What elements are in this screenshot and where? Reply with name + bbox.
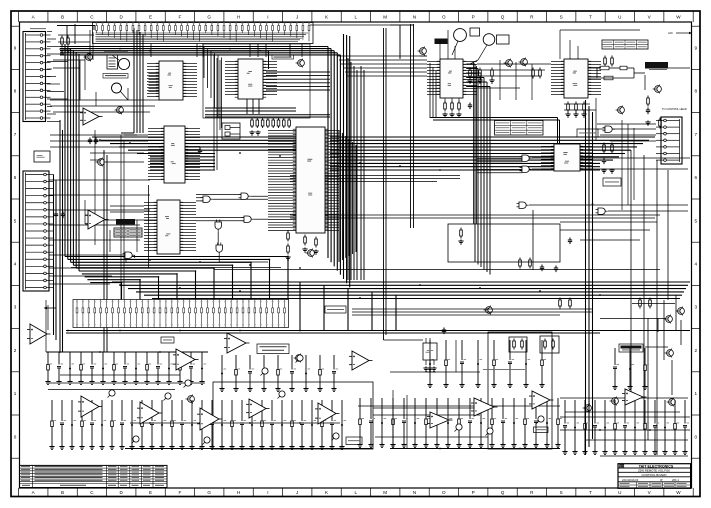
wire bus: left column bundle <box>54 44 80 352</box>
label TP4 (boxed) <box>161 337 174 343</box>
wire fan U7 left <box>551 62 564 95</box>
op-amp U29 <box>200 408 219 430</box>
wire: U6 right pair <box>474 62 477 224</box>
test point TP9 <box>185 380 191 386</box>
svg-text:E: E <box>149 15 152 20</box>
transistor Q5 <box>506 60 513 67</box>
logic gate G4 <box>215 222 221 229</box>
label J10 (boxed) <box>325 306 346 313</box>
op-amp U25 <box>352 351 369 370</box>
IC U5 (microprocessor) <box>296 127 325 233</box>
wire: top-left jogs <box>50 88 160 112</box>
svg-text:8: 8 <box>14 89 17 94</box>
label TO RF BOARD (reverse) <box>645 62 668 69</box>
IC U7 (UART) <box>564 59 588 98</box>
transistor Q3 <box>298 60 305 67</box>
op-amp U24 <box>227 333 246 353</box>
svg-text:3: 3 <box>695 305 698 310</box>
IC U3 (latch) <box>157 200 180 254</box>
transistor Q13 <box>612 398 619 405</box>
label TX AUDIO (boxed) <box>346 437 362 445</box>
label TUNE (boxed) <box>272 55 294 59</box>
wire: right mid horizontals <box>560 222 657 240</box>
transistor Q18 <box>117 107 124 114</box>
svg-text:2: 2 <box>695 348 698 353</box>
op-amp U35 <box>625 389 643 405</box>
wire fan U4 right <box>263 62 277 95</box>
module B1 (reset supervisor) <box>222 123 240 139</box>
svg-text:28C.1: 28C.1 <box>672 478 679 482</box>
resistor column under U5-left <box>287 231 289 242</box>
svg-text:A/D: A/D <box>668 31 673 35</box>
svg-text:J: J <box>296 15 298 20</box>
op-amp U28 <box>140 402 159 424</box>
label MIC AMP (boxed) <box>103 74 128 79</box>
resistor array RN2 (mid pull-downs) <box>73 300 289 328</box>
wire: staircase to U1/U4 <box>204 47 222 128</box>
enclosure: synth section <box>448 224 560 262</box>
enclosure: CPU support box <box>203 44 310 118</box>
op-amp U22 <box>88 210 105 229</box>
wire: rail y375 <box>48 375 180 390</box>
wire: U6-U7 interconnect <box>477 60 551 100</box>
wire: gnd rail y352 <box>46 351 208 353</box>
svg-text:O: O <box>442 15 446 20</box>
option table TB2 <box>602 40 648 49</box>
wire bus: mid-right bus <box>352 309 592 315</box>
wire: under U7 row <box>564 98 596 140</box>
wire fan U3 left <box>144 203 157 251</box>
title block TAIT ELECTRONICS <box>618 464 691 489</box>
transistor Q2 <box>98 159 105 166</box>
svg-text:T: T <box>589 490 592 495</box>
svg-text:W: W <box>676 15 681 20</box>
IC U4 (RAM) <box>238 59 263 99</box>
wire bus: bottom control bus staircase <box>65 257 690 331</box>
crystal X2 <box>454 29 467 42</box>
transistor Q12 <box>669 399 676 406</box>
wire bus: top data bus <box>60 47 340 55</box>
resistor array RN1 (top pull-ups) <box>93 23 314 44</box>
wire: rail y423 <box>46 383 690 423</box>
op-amp U34 <box>532 391 550 409</box>
transistor Q4 <box>420 48 427 55</box>
svg-text:Q: Q <box>501 490 505 495</box>
wire bus: right column bundle <box>586 100 593 455</box>
svg-text:H: H <box>237 490 240 495</box>
wire: local bus area <box>384 340 481 372</box>
transistor Q11 <box>585 405 592 412</box>
op-amp U23 <box>176 349 195 370</box>
transistor Q8 <box>678 308 685 315</box>
svg-text:F: F <box>178 15 181 20</box>
svg-text:2: 2 <box>14 348 17 353</box>
wire: OA2 circuit <box>85 130 160 299</box>
svg-text:P: P <box>472 15 475 20</box>
label FLASH (boxed) <box>603 178 621 186</box>
module B2 (RSSI buffer) <box>34 151 50 162</box>
wire: bottom right rails <box>560 398 688 456</box>
note LOCAL BUS <box>483 368 525 371</box>
svg-text:I: I <box>267 15 268 20</box>
svg-text:L: L <box>355 490 358 495</box>
svg-text:O: O <box>442 490 446 495</box>
test point TP10 <box>297 355 303 361</box>
connector J3 to control head <box>661 117 682 164</box>
wire: bottom mid rails <box>373 390 488 448</box>
note mic text <box>104 50 128 53</box>
wire: top-left elbow <box>57 24 95 44</box>
wire: U7 resistor loop <box>588 68 645 78</box>
test point TP1 <box>109 390 115 396</box>
wire fan U5 left <box>268 131 296 231</box>
wire bus: U4 right runs <box>247 72 330 114</box>
crystal X1 <box>112 83 122 93</box>
ground symbols upper <box>59 48 64 53</box>
test point TP11 <box>262 368 268 374</box>
svg-text:N: N <box>413 15 416 20</box>
svg-text:1: 1 <box>695 391 698 396</box>
wire: gate interconnects <box>126 195 268 262</box>
svg-text:B: B <box>61 490 64 495</box>
svg-text:H: H <box>237 15 240 20</box>
test point TP2 <box>165 393 171 399</box>
transistor Q10 <box>667 350 674 357</box>
svg-text:3: 3 <box>14 305 17 310</box>
logic gate G9 <box>598 208 605 214</box>
IC U8 (driver) <box>554 144 580 171</box>
svg-text:25W REMOTE VOL FSK: 25W REMOTE VOL FSK <box>638 469 670 473</box>
test point TP3 <box>133 436 139 442</box>
wire: gnd rail y448 <box>125 448 560 450</box>
svg-text:CONTROL BOARD: CONTROL BOARD <box>641 473 666 477</box>
discrete capacitors upper <box>88 138 92 145</box>
IC U9 (volume pot) <box>423 343 437 360</box>
wire fan U8 right <box>580 147 593 169</box>
wire fan U3 right <box>180 203 196 251</box>
svg-text:J: J <box>296 490 298 495</box>
transistor Q15 <box>296 355 303 362</box>
wire fan U2 left <box>148 129 164 180</box>
op-amp U31 <box>318 403 336 424</box>
wire: y117 elbow to U8 <box>430 118 560 145</box>
wire bus: x214 verticals <box>214 55 220 170</box>
wire bus: B-column heavy verticals <box>121 28 143 135</box>
op-amp U21 <box>30 324 47 344</box>
discrete clusters bottom (R/C + ground) <box>47 352 49 365</box>
op-amp U26 <box>83 108 99 125</box>
logic gate G11 <box>605 126 612 132</box>
svg-text:T: T <box>589 15 592 20</box>
svg-text:G: G <box>207 15 211 20</box>
wire: top line to N column <box>310 25 414 59</box>
svg-text:7: 7 <box>14 132 17 137</box>
svg-text:6: 6 <box>14 175 17 180</box>
wire: U6 bottom cluster <box>445 98 459 103</box>
svg-text:9: 9 <box>695 46 698 51</box>
wire bus: center to U6 <box>337 56 427 76</box>
svg-text:M: M <box>383 15 387 20</box>
wire fan U4 left <box>225 62 238 95</box>
svg-text:4: 4 <box>695 262 698 267</box>
svg-text:0: 0 <box>695 434 698 439</box>
IC U6 (gate array) <box>440 59 463 98</box>
test point TP8 <box>487 428 493 434</box>
label SQUELCH SETUP (boxed) <box>257 344 289 354</box>
logic gate G6 <box>522 155 529 161</box>
wire: long vertical pair <box>384 28 387 340</box>
test point TP5 <box>333 433 339 439</box>
IC U1 (EEPROM) <box>159 61 183 100</box>
label VCXO (reverse) <box>435 39 448 45</box>
op-amp U30 <box>249 399 266 418</box>
module B4 (filter can) <box>540 336 559 353</box>
enclosure: audio section <box>213 382 373 449</box>
wire: J2 lower feeds <box>46 268 115 352</box>
wire fan U1 right <box>183 64 197 97</box>
svg-text:8: 8 <box>695 89 698 94</box>
svg-text:I: I <box>267 490 268 495</box>
svg-text:G: G <box>207 490 211 495</box>
transistor Q16 <box>486 307 493 314</box>
svg-text:S: S <box>560 15 563 20</box>
transistor Q1 <box>86 54 93 61</box>
wire: J3 feeds <box>597 120 656 210</box>
wire: J2 to U2/U3 <box>50 135 148 212</box>
wire bus: U5 feed <box>205 108 330 117</box>
svg-text:F: F <box>178 490 181 495</box>
wire fan U1 left <box>147 64 159 97</box>
svg-text:IP: IP <box>660 478 663 482</box>
enclosure: logic section edges <box>71 185 281 268</box>
wire: C column vertical pair <box>104 150 107 352</box>
logic gate G2 <box>241 193 248 199</box>
svg-text:9: 9 <box>14 46 17 51</box>
wire: U6 left verticals <box>430 63 436 118</box>
label TXBO (boxed) <box>534 427 549 433</box>
wire: U1 left comb <box>149 74 160 92</box>
buzzer LS1 <box>118 58 129 69</box>
discrete resistors upper <box>61 36 63 47</box>
wire: gate outputs right <box>477 68 690 211</box>
wire: J1 pin wires <box>47 32 68 122</box>
svg-text:M: M <box>383 490 387 495</box>
wire: vertical pair N column <box>411 24 414 228</box>
svg-text:5: 5 <box>695 218 698 223</box>
label SERIAL PORT (reverse) <box>116 219 135 225</box>
svg-text:5: 5 <box>14 218 17 223</box>
wire: J1 to RN1 jogs <box>53 30 94 100</box>
wire: OA1 output arrow <box>45 307 56 309</box>
svg-text:220-02019-03: 220-02019-03 <box>622 478 639 482</box>
wire fan U8 left <box>541 147 554 169</box>
module B3 (keypad) <box>107 55 118 69</box>
logic gate G7 <box>522 166 529 172</box>
test point TP7 <box>456 424 462 430</box>
IC U2 (latch) <box>164 126 185 183</box>
wire fan U7 right <box>588 62 601 95</box>
transistor Q9 <box>666 316 673 323</box>
note TO RF text <box>649 68 667 71</box>
wire fan U2 right <box>185 129 200 180</box>
transistor Q6 <box>521 59 528 66</box>
svg-text:E: E <box>149 490 152 495</box>
wire bus: vertical bundle center <box>328 34 350 287</box>
logic gate G10 <box>125 252 132 258</box>
svg-text:4: 4 <box>14 262 17 267</box>
link table TB3 <box>114 228 142 237</box>
connector J2 (options) <box>23 171 49 291</box>
logic gate G3 <box>244 216 251 222</box>
op-amp U33 <box>474 398 494 416</box>
wire: J2 pin feeds <box>49 180 150 255</box>
svg-text:S: S <box>560 490 563 495</box>
wire: far right verticals <box>631 150 668 455</box>
svg-text:U: U <box>618 15 621 20</box>
revision table <box>20 465 168 487</box>
logic gate G1 <box>203 196 210 202</box>
transistor Q7 <box>655 86 662 93</box>
wire fan U6 left <box>427 62 440 95</box>
wire bus: U5 right bundle <box>339 58 364 280</box>
connector J1 (microphone/front panel) <box>23 32 46 122</box>
module B5 (xtal filter) <box>509 337 527 352</box>
svg-text:1: 1 <box>14 391 17 396</box>
resistor comb R30-R37 <box>251 118 253 128</box>
svg-text:U: U <box>618 490 621 495</box>
wire fan U6 right <box>463 62 477 95</box>
svg-text:TO CONTROL HEAD: TO CONTROL HEAD <box>662 107 687 111</box>
label 12V REG (boxed) <box>577 129 598 137</box>
junction dots <box>89 46 91 48</box>
wire fan U5 right <box>325 131 339 231</box>
svg-text:6: 6 <box>695 175 698 180</box>
logic gate G5 <box>216 245 222 252</box>
svg-text:0: 0 <box>14 434 17 439</box>
svg-text:L: L <box>355 15 358 20</box>
op-amp U32 <box>430 412 449 428</box>
wire: U7 top feeds <box>560 30 640 59</box>
enclosure: VCO section <box>488 332 552 449</box>
transistor Q17 <box>618 107 625 114</box>
svg-text:N: N <box>413 490 416 495</box>
transistor Q14 <box>188 396 195 403</box>
svg-text:7: 7 <box>695 132 698 137</box>
wire bus: y175 runs <box>290 176 460 182</box>
frequency table TB1 <box>495 121 544 136</box>
test point TP6 <box>204 437 210 443</box>
wire bus: y215 runs <box>214 215 660 270</box>
svg-text:B: B <box>61 15 64 20</box>
svg-text:W: W <box>676 490 681 495</box>
crystal X3 <box>483 34 495 46</box>
test point TP4 <box>279 391 285 397</box>
svg-text:P: P <box>472 490 475 495</box>
op-amp U27 <box>81 396 99 417</box>
wire: right transistor col <box>600 295 681 440</box>
transistor Q19 <box>308 250 315 257</box>
test point TP12 <box>538 416 544 422</box>
label RX MUTE (boxed) <box>619 344 643 352</box>
wire bus: mid address bus <box>92 137 655 170</box>
svg-text:Q: Q <box>501 15 505 20</box>
wire: rail below RN2 <box>66 331 690 334</box>
wire: rail right y430 <box>560 429 690 431</box>
wire bus: U6 down bundle <box>466 64 490 275</box>
logic gate G8 <box>519 202 526 208</box>
wire: U6 top feeds <box>390 25 455 59</box>
